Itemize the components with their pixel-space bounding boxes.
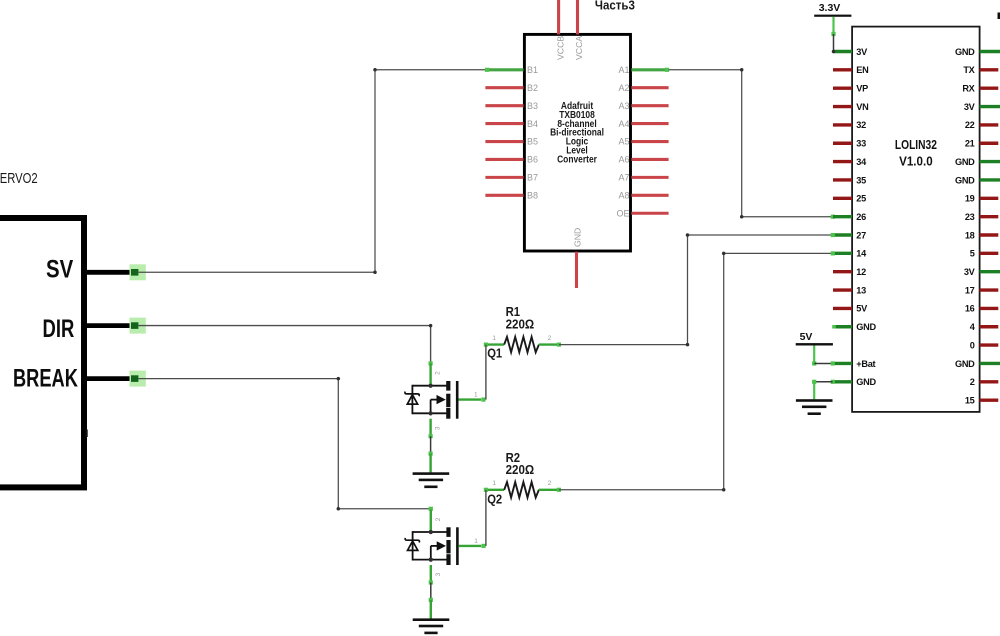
- svg-text:16: 16: [965, 304, 975, 314]
- svg-text:A3: A3: [618, 101, 629, 111]
- svg-text:VCCA: VCCA: [574, 36, 584, 60]
- svg-text:19: 19: [965, 194, 975, 204]
- svg-text:DIR: DIR: [43, 315, 75, 343]
- svg-text:B3: B3: [527, 101, 538, 111]
- svg-text:TX: TX: [963, 65, 975, 75]
- svg-text:Q1: Q1: [487, 345, 502, 360]
- svg-text:5: 5: [970, 249, 975, 259]
- svg-text:B2: B2: [527, 83, 538, 93]
- svg-text:A8: A8: [618, 191, 629, 201]
- svg-text:GND: GND: [856, 322, 876, 332]
- svg-text:32: 32: [856, 120, 866, 130]
- svg-text:B8: B8: [527, 191, 538, 201]
- svg-text:21: 21: [965, 139, 975, 149]
- svg-text:5V: 5V: [800, 331, 813, 343]
- svg-text:33: 33: [856, 139, 866, 149]
- svg-text:18: 18: [965, 230, 975, 240]
- svg-text:34: 34: [856, 157, 867, 167]
- svg-text:12: 12: [856, 267, 866, 277]
- svg-text:15: 15: [965, 395, 975, 405]
- svg-text:3V: 3V: [856, 47, 868, 57]
- svg-text:GND: GND: [856, 377, 876, 387]
- svg-text:RX: RX: [962, 84, 975, 94]
- svg-text:220Ω: 220Ω: [506, 462, 535, 477]
- svg-text:LOLIN32: LOLIN32: [895, 137, 937, 152]
- svg-text:14: 14: [856, 249, 867, 259]
- svg-text:27: 27: [856, 230, 866, 240]
- svg-text:220Ω: 220Ω: [506, 317, 535, 332]
- svg-text:23: 23: [965, 212, 975, 222]
- svg-text:13: 13: [856, 285, 866, 295]
- svg-text:0: 0: [970, 340, 975, 350]
- svg-text:SV: SV: [46, 256, 73, 284]
- svg-text:OE: OE: [616, 208, 629, 218]
- svg-text:26: 26: [856, 212, 866, 222]
- svg-text:EN: EN: [856, 65, 869, 75]
- svg-text:VP: VP: [856, 84, 868, 94]
- svg-text:Q2: Q2: [487, 491, 502, 506]
- svg-text:A6: A6: [618, 155, 629, 165]
- svg-text:3.3V: 3.3V: [819, 2, 841, 14]
- svg-text:17: 17: [965, 285, 975, 295]
- svg-text:B7: B7: [527, 173, 538, 183]
- svg-text:GND: GND: [572, 228, 582, 247]
- svg-text:A5: A5: [618, 137, 629, 147]
- svg-text:ERVO2: ERVO2: [0, 170, 38, 187]
- svg-text:A7: A7: [618, 173, 629, 183]
- svg-text:A4: A4: [618, 119, 629, 129]
- svg-text:A1: A1: [618, 65, 629, 75]
- svg-text:35: 35: [856, 175, 866, 185]
- svg-text:2: 2: [970, 377, 975, 387]
- svg-text:Часть3: Часть3: [595, 0, 635, 13]
- svg-text:VN: VN: [856, 102, 869, 112]
- svg-text:BREAK: BREAK: [13, 365, 78, 393]
- svg-text:3V: 3V: [964, 102, 976, 112]
- svg-text:GND: GND: [955, 47, 975, 57]
- svg-text:B4: B4: [527, 119, 538, 129]
- svg-text:V1.0.0: V1.0.0: [899, 153, 933, 168]
- svg-text:25: 25: [856, 194, 866, 204]
- svg-text:+Bat: +Bat: [856, 359, 875, 369]
- svg-text:Converter: Converter: [557, 154, 597, 165]
- svg-text:B5: B5: [527, 137, 538, 147]
- svg-text:3V: 3V: [964, 267, 976, 277]
- svg-text:GND: GND: [955, 175, 975, 185]
- svg-text:B6: B6: [527, 155, 538, 165]
- svg-text:22: 22: [965, 120, 975, 130]
- svg-text:5V: 5V: [856, 304, 868, 314]
- svg-text:A2: A2: [618, 83, 629, 93]
- svg-text:GND: GND: [955, 359, 975, 369]
- svg-text:B1: B1: [527, 65, 538, 75]
- svg-text:VCCB: VCCB: [555, 36, 565, 60]
- svg-text:GND: GND: [955, 157, 975, 167]
